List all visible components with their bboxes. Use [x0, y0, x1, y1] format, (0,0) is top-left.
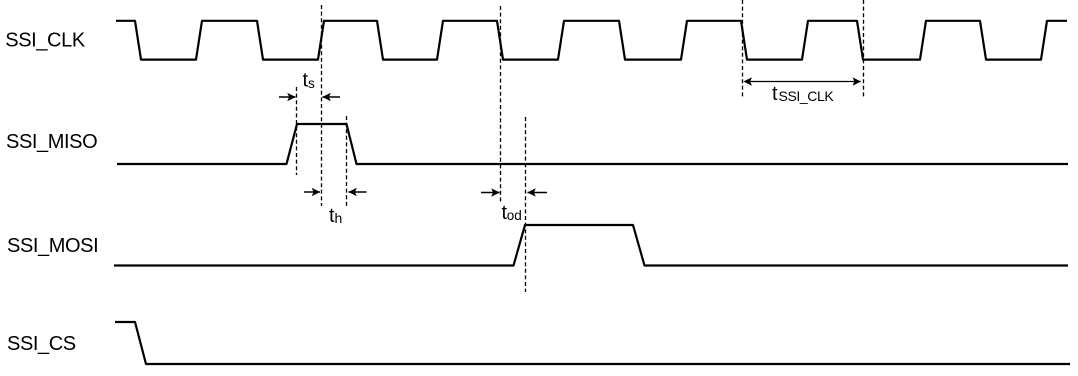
svg-text:SSI_CLK: SSI_CLK: [779, 88, 835, 104]
label tSSI_CLK: [772, 83, 834, 105]
arrow th right: [349, 191, 367, 193]
arrow tSSI_CLK double-headed: [745, 81, 861, 83]
arrow ts left: [279, 96, 296, 98]
svg-text:h: h: [335, 210, 343, 226]
label ts: [303, 70, 316, 92]
node dashed guide MOSI rising edge: [525, 117, 527, 292]
arrow tSSI_CLK left head: [744, 77, 753, 85]
node dashed guide clock falling edge (tod reference): [500, 6, 502, 203]
svg-text:od: od: [507, 208, 522, 223]
label th: [329, 205, 342, 227]
node dashed guide clock period end: [863, 0, 865, 98]
wire SSI_CLK waveform: [116, 21, 1067, 60]
arrow th left: [304, 191, 320, 193]
arrow tod left: [481, 192, 500, 194]
arrow ts right: [323, 96, 341, 98]
wire SSI_MISO waveform: [117, 124, 1068, 164]
wire SSI_CS waveform: [115, 322, 1070, 364]
wire SSI_MOSI waveform: [114, 225, 1068, 266]
node dashed guide MISO falling edge: [346, 116, 348, 206]
svg-text:t: t: [772, 83, 778, 105]
svg-text:SSI_CLK: SSI_CLK: [5, 29, 86, 51]
svg-text:s: s: [308, 76, 315, 91]
node dashed guide clock period start: [742, 0, 744, 98]
node dashed guide MISO rising edge: [296, 87, 298, 175]
arrow tod right: [528, 192, 548, 194]
svg-text:SSI_CS: SSI_CS: [7, 333, 76, 355]
svg-text:SSI_MOSI: SSI_MOSI: [7, 235, 98, 257]
svg-text:SSI_MISO: SSI_MISO: [6, 131, 97, 153]
node dashed guide clock rising edge (ts/th reference): [321, 5, 323, 206]
label tod: [502, 202, 522, 224]
